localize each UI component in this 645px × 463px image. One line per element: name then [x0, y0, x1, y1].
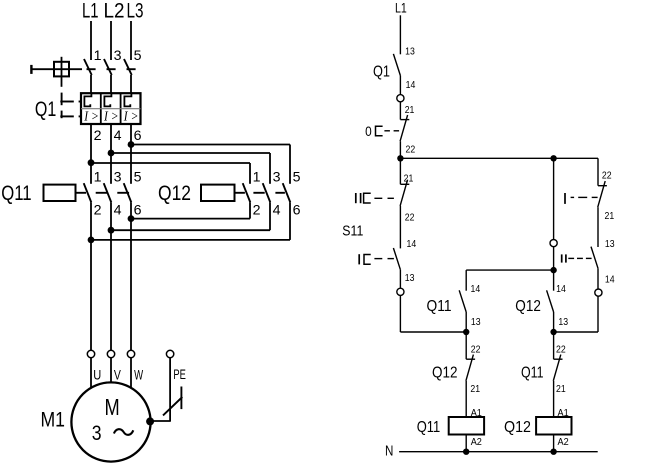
S11 II dash 1	[374, 197, 382, 199]
junction phase2 feed	[108, 150, 115, 157]
wire Q12 aux output	[553, 312, 555, 332]
wire Q11 aux top drop	[465, 270, 467, 291]
wire phase1 Q1 to Q11	[90, 124, 92, 184]
junction phase1 feed	[88, 159, 95, 166]
svg-text:N: N	[385, 443, 393, 460]
svg-text:Q11: Q11	[521, 365, 544, 382]
Q12 aux NO blade	[547, 290, 554, 312]
Q11 coupling link	[76, 192, 87, 194]
terminal V	[107, 350, 114, 357]
Q1 pole contact 3 coupling tick	[107, 68, 116, 70]
wire terminal to stop button	[399, 102, 401, 120]
Q1 trip lever 2	[60, 115, 74, 117]
svg-text:13: 13	[605, 239, 615, 250]
terminal circle S11 feed	[550, 240, 557, 247]
S11 II NO button bars	[561, 254, 563, 262]
wire Q11 pole2 to motor V	[110, 202, 112, 350]
wire node to Q12 interlock	[465, 332, 467, 359]
svg-text:W: W	[134, 367, 143, 383]
Q11 interlock NC blade	[553, 355, 561, 381]
svg-text:Q12: Q12	[432, 365, 458, 382]
wire Q12 pole1 output to phase3	[249, 202, 251, 218]
junction after stop button	[397, 155, 403, 161]
svg-text:5: 5	[134, 169, 142, 185]
svg-text:PE: PE	[173, 367, 186, 383]
Q1 handle link	[31, 68, 82, 70]
Q1 thermal release hook pole 3	[124, 93, 131, 106]
svg-text:2: 2	[94, 128, 102, 144]
svg-text:U: U	[93, 367, 101, 383]
svg-text:21: 21	[605, 211, 615, 222]
svg-text:L2: L2	[104, 0, 125, 22]
wire S11 I NC to S11 II NO	[597, 207, 599, 247]
wire S11 II terminal down	[597, 296, 599, 332]
Q1 pole contact 5 blade	[124, 59, 132, 75]
Q1 overload/trip box outline	[81, 93, 141, 124]
Q12 coupling link	[235, 192, 245, 194]
wire terminal W to motor	[130, 358, 132, 389]
svg-text:3: 3	[92, 422, 102, 445]
svg-text:22: 22	[471, 345, 481, 356]
svg-text:Q12: Q12	[158, 182, 191, 205]
S11 II NO dash 2	[577, 257, 583, 259]
wire coil Q11 to N	[465, 435, 467, 452]
junction motor W	[128, 215, 135, 222]
coil Q12 box	[536, 417, 571, 435]
Q1 box column divider 2	[120, 93, 122, 124]
wire phase3 Q1 to Q11	[130, 124, 132, 184]
wire S11 II to S11 I	[399, 206, 401, 249]
wire node to Q11 interlock	[553, 332, 555, 359]
svg-text:4: 4	[114, 203, 122, 219]
wire S11 II NO output	[597, 268, 599, 289]
svg-text:13: 13	[558, 317, 568, 328]
Q11 main contact 3-4 blade	[104, 183, 112, 202]
svg-text:5: 5	[134, 48, 142, 64]
S11 II NC tick	[400, 183, 409, 185]
Q12 coupling dash 1	[253, 192, 264, 194]
wire terminal V to motor	[110, 358, 112, 383]
S11 I NC dash 1	[571, 196, 575, 198]
svg-text:14: 14	[556, 284, 566, 295]
wire terminal U to motor	[90, 358, 92, 389]
terminal circle S11 I output	[397, 288, 404, 295]
S11 I button actuator	[364, 255, 371, 265]
Q1 linkage dash 2	[61, 111, 63, 119]
Q11 coupling dash 1	[96, 192, 108, 194]
svg-text:22: 22	[556, 345, 566, 356]
wire S11 feed terminal down	[553, 247, 555, 291]
stop button 0 actuator	[376, 126, 383, 136]
wire Q12 interlock to coil Q11	[465, 381, 467, 417]
svg-text:Q11: Q11	[417, 419, 441, 436]
wire feed phase3 to Q12 pole3	[131, 144, 290, 146]
svg-text:L3: L3	[127, 0, 144, 22]
svg-text:I >: I >	[83, 108, 98, 123]
svg-text:6: 6	[293, 203, 301, 219]
S11 II NC blade	[400, 180, 408, 206]
junction bus at middle rail	[550, 155, 556, 161]
junction coil Q11 at N	[463, 449, 469, 455]
svg-text:21: 21	[556, 384, 566, 395]
wire Q11 aux output	[465, 312, 467, 332]
Q1 pole contact 1 blade	[84, 59, 92, 75]
wire bus to S11 feed terminal	[553, 158, 555, 239]
wire Q11 aux top tap	[466, 269, 553, 271]
stop button 0 NC blade	[400, 115, 408, 141]
svg-text:Q11: Q11	[427, 298, 452, 315]
svg-text:L1: L1	[82, 0, 99, 22]
svg-text:V: V	[114, 367, 121, 383]
Q12 main contact 3-4 blade	[263, 183, 271, 202]
Q1 trip lever 1	[60, 101, 74, 103]
svg-text:2: 2	[253, 203, 261, 219]
svg-text:21: 21	[405, 105, 415, 116]
svg-text:A2: A2	[471, 437, 483, 448]
svg-text:I >: I >	[103, 108, 118, 123]
junction Q11 branch node	[463, 329, 469, 335]
svg-text:Q11: Q11	[1, 182, 31, 205]
svg-text:0: 0	[365, 123, 372, 139]
svg-text:L1: L1	[395, 0, 407, 16]
Q12 main contact 5-6 blade	[283, 183, 291, 202]
svg-text:3: 3	[273, 169, 281, 185]
junction motor V	[108, 227, 115, 234]
wire S11 I output	[399, 270, 401, 289]
svg-text:13: 13	[471, 317, 481, 328]
Q1 pole contact 1 coupling tick	[87, 68, 96, 70]
Q1 pole contact 3 blade	[104, 59, 112, 75]
junction phase3 feed	[128, 141, 135, 148]
stop button 0 NC tick	[400, 119, 409, 121]
S11 II button actuator	[364, 193, 371, 203]
wire Q1 pole 3 to overload box	[110, 75, 112, 93]
svg-text:4: 4	[114, 128, 122, 144]
Q12 main contact 1-2 blade	[243, 183, 251, 202]
wire Q1 pole 5 to overload box	[130, 75, 132, 93]
svg-text:4: 4	[273, 203, 281, 219]
S11 I NC button bar	[564, 193, 566, 204]
motor AC tilde	[114, 429, 133, 435]
Q11 aux NO blade	[459, 290, 466, 312]
svg-text:Q12: Q12	[504, 419, 531, 436]
junction coil Q12 at N	[550, 449, 556, 455]
svg-text:14: 14	[471, 284, 481, 295]
Q11 main contact 5-6 blade	[124, 183, 132, 202]
S11 II NO dash 3	[586, 257, 592, 259]
Q11 coil box	[44, 185, 76, 201]
S11 I dash 1	[374, 258, 382, 260]
wire bus corner to S11 I NC	[597, 158, 599, 185]
Q1 actuator cross vertical	[61, 57, 63, 87]
wire feed phase2 to Q12 pole2	[111, 152, 270, 154]
wire node to S11 II	[399, 158, 401, 184]
Q1 pole contact 5 coupling tick	[127, 68, 136, 70]
svg-text:M1: M1	[41, 408, 66, 431]
Q11 main contact 1-2 blade	[84, 183, 92, 202]
S11 I NC blade	[598, 181, 606, 207]
svg-text:21: 21	[404, 174, 414, 185]
wire Q11 interlock to coil Q12	[553, 381, 555, 417]
S11 II NO dash 1	[568, 257, 574, 259]
S11 I NC dash 3	[592, 196, 598, 198]
wire stop button to node	[399, 141, 401, 158]
wire node bus to right	[400, 157, 598, 159]
svg-text:Q12: Q12	[515, 298, 541, 315]
svg-text:14: 14	[605, 275, 615, 286]
S11 I button bar	[358, 254, 360, 264]
wire L2 incoming	[110, 21, 112, 60]
svg-text:2: 2	[94, 203, 102, 219]
S11 II NO blade	[591, 247, 598, 269]
svg-text:1: 1	[94, 48, 102, 64]
Q11 interlock NC tick	[554, 358, 563, 360]
Q1 aux NO contact blade	[393, 54, 400, 76]
wire PE to motor frame	[150, 420, 171, 422]
wire Q1 aux to terminal	[399, 76, 401, 95]
Q11 coupling dash 2	[117, 192, 129, 194]
wire Q11 pole3 to motor W	[130, 202, 132, 350]
svg-text:3: 3	[114, 48, 122, 64]
Q1 linkage dash 1	[61, 93, 63, 106]
wire L3 incoming	[130, 21, 132, 60]
wire Q1 pole 1 to overload box	[90, 75, 92, 93]
svg-text:5: 5	[293, 169, 301, 185]
Q12 interlock NC tick	[466, 358, 475, 360]
motor M1 circle	[71, 382, 150, 461]
terminal circle S11 II output	[595, 289, 602, 296]
wire PE drop	[169, 358, 171, 421]
S11 I NC tick	[598, 185, 607, 187]
svg-text:13: 13	[405, 47, 415, 58]
terminal U	[87, 350, 94, 357]
terminal circle after Q1 aux	[397, 95, 404, 102]
terminal PE	[166, 350, 173, 357]
Q12 interlock NC blade	[466, 355, 474, 381]
wire coil Q12 to N	[553, 435, 555, 452]
junction Q12 branch node	[550, 329, 556, 335]
S11 II button bars	[355, 193, 357, 203]
wire feed phase1 to Q12 pole1	[91, 162, 250, 164]
Q12 coil box	[201, 185, 235, 201]
PE bar mark	[180, 387, 182, 410]
svg-text:1: 1	[253, 169, 261, 185]
svg-text:3: 3	[114, 169, 122, 185]
Q1 actuator square	[54, 62, 69, 77]
Q1 box column divider 1	[100, 93, 102, 124]
svg-text:22: 22	[405, 213, 415, 224]
S11 I dash 2	[388, 258, 394, 260]
wire Q11 pole1 to motor U	[90, 202, 92, 350]
coil Q11 box	[449, 417, 484, 435]
svg-text:13: 13	[405, 273, 415, 284]
svg-text:14: 14	[406, 80, 416, 91]
wire phase2 Q1 to Q11	[110, 124, 112, 184]
wire N bus	[399, 451, 598, 453]
wire S11 I output to Q11 branch	[400, 331, 466, 333]
terminal W	[127, 350, 134, 357]
wire Q12 pole3 output to phase1	[289, 202, 291, 240]
svg-text:S11: S11	[342, 223, 363, 239]
stop button 0 dash 1	[384, 130, 390, 132]
junction PE motor frame	[146, 417, 154, 425]
PE slash mark	[163, 397, 182, 415]
svg-text:6: 6	[134, 128, 142, 144]
svg-text:M: M	[105, 394, 120, 420]
junction tap at middle rail	[550, 267, 556, 273]
Q12 coupling dash 2	[275, 192, 285, 194]
svg-text:Q1: Q1	[35, 98, 56, 121]
S11 I NC dash 2	[578, 196, 587, 198]
wire S11 I terminal down	[399, 295, 401, 332]
svg-text:22: 22	[602, 171, 612, 182]
svg-text:1: 1	[94, 169, 102, 185]
wire L1 control drop	[399, 15, 401, 54]
stop button 0 dash 2	[394, 130, 400, 132]
svg-text:21: 21	[470, 384, 480, 395]
S11 II dash 2	[388, 197, 394, 199]
Q1 thermal release hook pole 1	[84, 93, 91, 106]
svg-text:A2: A2	[558, 437, 570, 448]
svg-text:14: 14	[407, 239, 417, 250]
Q1 handle T-bar	[30, 65, 32, 74]
svg-text:6: 6	[134, 203, 142, 219]
svg-text:I >: I >	[123, 108, 138, 123]
junction motor U	[88, 237, 95, 244]
wire L1 incoming	[90, 21, 92, 60]
wire Q12 pole2 output to phase2	[269, 202, 271, 230]
Q1 box row divider	[81, 108, 141, 110]
S11 I NO blade	[393, 248, 400, 270]
Q1 thermal release hook pole 2	[104, 93, 111, 106]
svg-text:Q1: Q1	[373, 63, 390, 80]
wire Q12 branch node to II output	[554, 331, 598, 333]
svg-text:22: 22	[406, 145, 416, 156]
